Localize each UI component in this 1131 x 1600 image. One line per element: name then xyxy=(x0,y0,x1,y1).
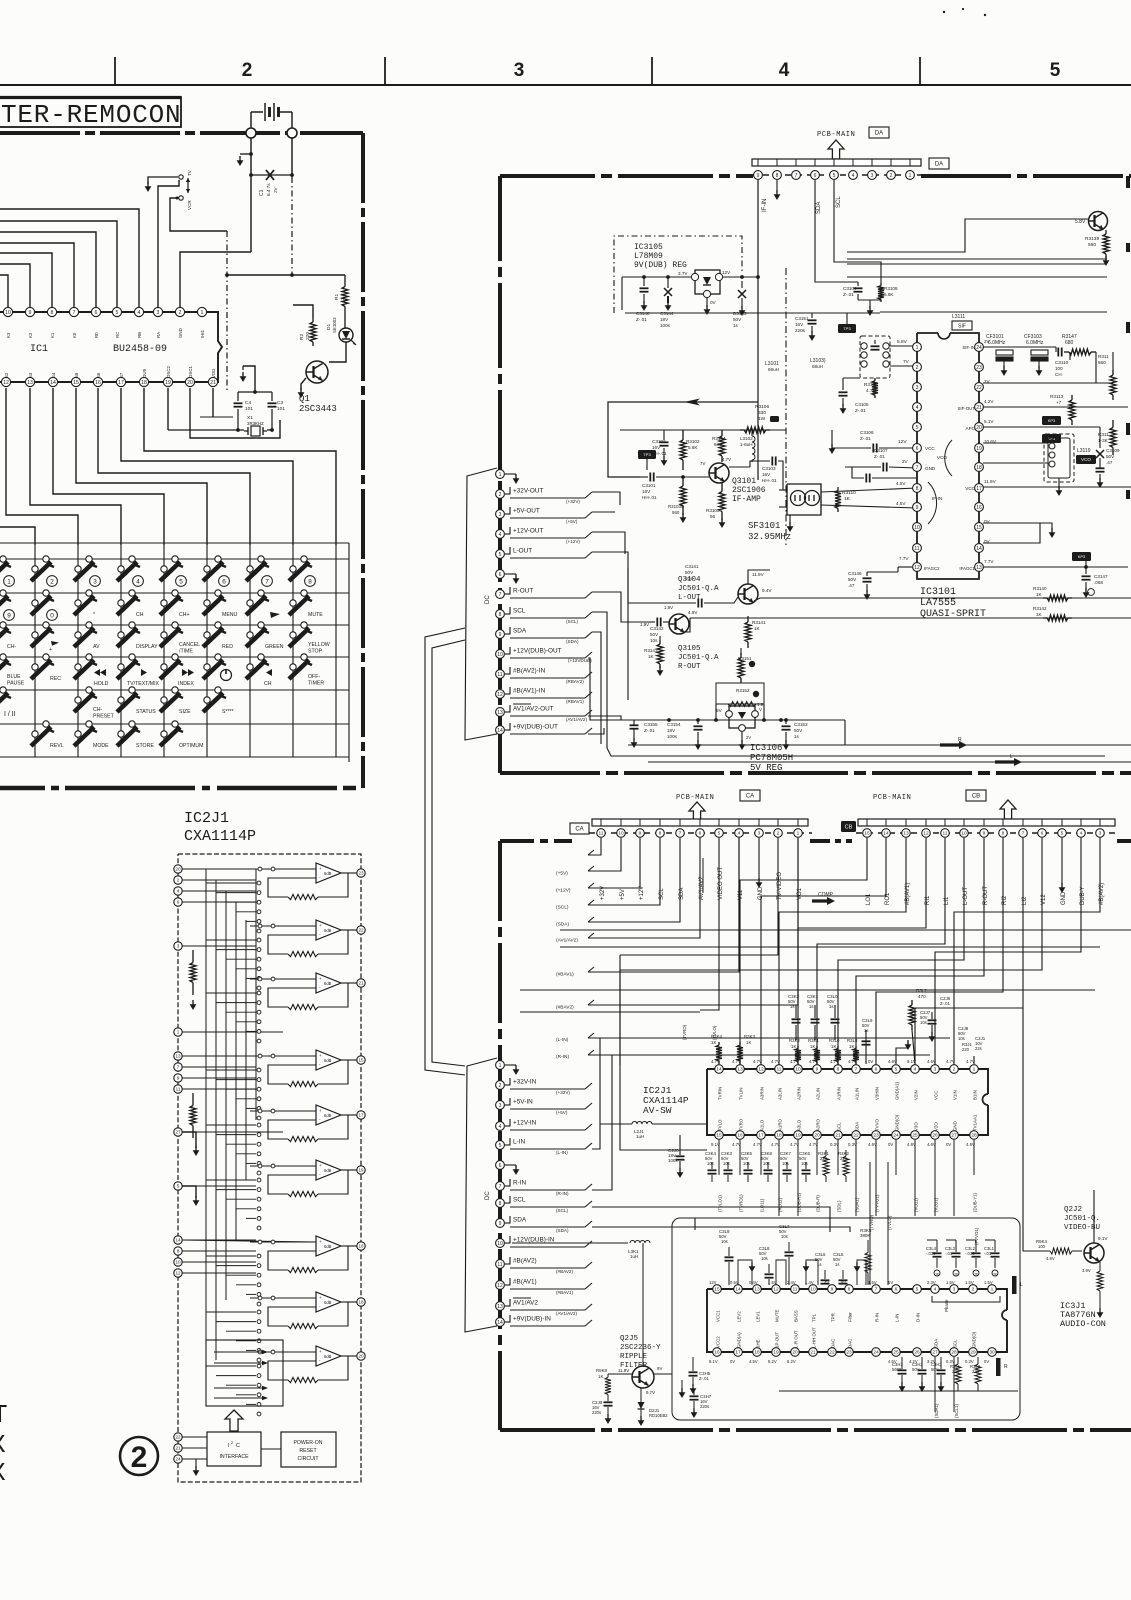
svg-text:25: 25 xyxy=(893,1350,899,1356)
svg-text:TP: TP xyxy=(993,1272,997,1276)
svg-text:4.5V: 4.5V xyxy=(749,1359,758,1364)
key switch hold at row 657 xyxy=(86,654,92,660)
svg-text:0: 0 xyxy=(50,612,54,619)
resistor R3110 1K xyxy=(837,487,839,491)
svg-text:2: 2 xyxy=(177,878,180,883)
svg-text:K1: K1 xyxy=(50,332,55,338)
svg-text:1W: 1W xyxy=(758,416,766,422)
svg-text:BU2458-09: BU2458-09 xyxy=(113,344,167,355)
svg-text:2: 2 xyxy=(890,173,893,179)
wire video buffer feed xyxy=(1023,1008,1040,1251)
svg-text:+5V-IN: +5V-IN xyxy=(513,1099,533,1106)
svg-text:#B(AV2): #B(AV2) xyxy=(513,1258,537,1265)
svg-text:9: 9 xyxy=(7,612,11,619)
wire horizontal collector below AV-SW xyxy=(695,1217,1010,1219)
svg-text:25: 25 xyxy=(912,1133,918,1139)
svg-text:560: 560 xyxy=(1098,360,1106,365)
svg-text:10s: 10s xyxy=(763,1161,770,1166)
svg-text:RA: RA xyxy=(156,332,161,338)
svg-text:7V: 7V xyxy=(700,461,705,466)
coil L3119 VCO xyxy=(983,442,1048,444)
svg-text:VIDEO-BU: VIDEO-BU xyxy=(1064,1224,1100,1232)
svg-text:10s: 10s xyxy=(782,1161,789,1166)
svg-text:2.4V: 2.4V xyxy=(787,1280,796,1285)
svg-text:I / II: I / II xyxy=(4,711,16,718)
svg-text:330: 330 xyxy=(758,410,766,416)
svg-text:8: 8 xyxy=(499,612,502,618)
svg-text:RESET: RESET xyxy=(299,1448,317,1454)
key switch c3 at row 559 xyxy=(86,556,92,562)
svg-text:12: 12 xyxy=(923,831,929,837)
connector DC IN pin 10 +12V(DUB)-IN xyxy=(496,1239,505,1248)
svg-text:(TVLO1): (TVLO1) xyxy=(718,1195,723,1212)
svg-text:27: 27 xyxy=(932,1350,938,1356)
svg-text:Z-.01: Z-.01 xyxy=(636,317,647,322)
svg-text:R-OUT: R-OUT xyxy=(513,588,533,595)
svg-text:4: 4 xyxy=(138,310,141,316)
svg-text:IF-AMP: IF-AMP xyxy=(732,495,761,504)
svg-text:+9V(DUB)-OUT: +9V(DUB)-OUT xyxy=(513,724,558,731)
wire battery right down xyxy=(291,138,293,177)
svg-text:13: 13 xyxy=(497,710,503,716)
ground pin1 area xyxy=(973,1056,975,1064)
svg-text:7: 7 xyxy=(1022,831,1025,837)
wire D1 to Q1 collector xyxy=(329,342,346,362)
connector DC OUT shell xyxy=(465,468,497,740)
svg-text:3: 3 xyxy=(1099,831,1102,837)
svg-text:1s: 1s xyxy=(864,1028,868,1033)
svg-text:19: 19 xyxy=(773,1350,779,1356)
ground CB GND pin xyxy=(1061,838,1063,885)
svg-text:3: 3 xyxy=(953,1287,956,1293)
svg-text:2: 2 xyxy=(953,1067,956,1073)
svg-text:6: 6 xyxy=(916,446,919,452)
svg-text:14: 14 xyxy=(735,1287,741,1293)
svg-text:2SC3443: 2SC3443 xyxy=(299,404,337,414)
svg-text:13: 13 xyxy=(737,1067,743,1073)
key switch BLUE PAUSE at row 657 xyxy=(0,654,6,660)
svg-text:6: 6 xyxy=(499,572,502,578)
I2C interface box xyxy=(207,1432,261,1466)
svg-text:10s: 10s xyxy=(685,576,693,581)
svg-text:L3102: L3102 xyxy=(740,436,753,441)
svg-text:6: 6 xyxy=(875,1067,878,1073)
svg-text:24: 24 xyxy=(976,345,982,351)
svg-text:24: 24 xyxy=(873,1350,879,1356)
svg-text:10s: 10s xyxy=(781,1234,788,1239)
svg-text:2: 2 xyxy=(179,310,182,316)
svg-text:14: 14 xyxy=(497,728,503,734)
svg-text:4: 4 xyxy=(738,831,741,837)
svg-text:A3LO: A3LO xyxy=(797,1119,802,1131)
connector CB pin 9 R-OUT xyxy=(980,829,989,838)
svg-text:CH: CH xyxy=(264,681,272,687)
connector DC OUT pin 13 AV1/AV2-OUT xyxy=(496,708,505,717)
svg-text:AV1/AV2: AV1/AV2 xyxy=(513,1300,538,1307)
svg-text:(RBAV1): (RBAV1) xyxy=(566,699,584,704)
svg-text:IF-IN: IF-IN xyxy=(762,199,768,212)
IC1 bottom pins 12..22 xyxy=(1,377,10,386)
resistor R1 2.2 xyxy=(344,275,346,287)
svg-text:1: 1 xyxy=(797,831,800,837)
svg-text:6dB: 6dB xyxy=(324,1354,332,1359)
svg-text:(LO11): (LO11) xyxy=(760,1198,765,1212)
overline AV1 xyxy=(513,703,531,705)
resistor R3103 560 xyxy=(682,477,684,486)
svg-text:PCB-MAIN: PCB-MAIN xyxy=(873,794,911,802)
IC3105 sub-box xyxy=(614,236,742,313)
IC2J1 output pin 19 xyxy=(357,1166,365,1174)
connector DC IN pin 6 xyxy=(496,1161,505,1170)
svg-text:11: 11 xyxy=(599,831,604,837)
svg-text:0V: 0V xyxy=(946,1142,951,1147)
key boxes APC xyxy=(1042,416,1061,425)
svg-text:(DUB-Y1): (DUB-Y1) xyxy=(973,1192,978,1212)
IC1 top pins 10..1 xyxy=(3,307,12,316)
svg-text:IC2J1: IC2J1 xyxy=(184,810,229,827)
svg-text:10s: 10s xyxy=(721,1239,728,1244)
wire base route left xyxy=(847,219,1088,252)
svg-text:21: 21 xyxy=(835,1133,841,1139)
svg-text:TP3: TP3 xyxy=(843,326,851,331)
op-amp buffer to pin 20 xyxy=(316,1346,341,1366)
svg-text:4.6V: 4.6V xyxy=(927,1059,936,1064)
wire bundle IC1 top fan to left edge xyxy=(0,209,139,308)
svg-text:10s: 10s xyxy=(920,1020,927,1025)
IC IC3J1 TA8776N body xyxy=(707,1289,1007,1310)
svg-text:4: 4 xyxy=(1080,831,1083,837)
svg-text:+32V-OUT: +32V-OUT xyxy=(513,488,543,495)
svg-text:TP: TP xyxy=(954,1272,958,1276)
svg-text:SIF-IN: SIF-IN xyxy=(962,345,975,350)
connector DC OUT pin 11 #B(AV2)-IN xyxy=(496,670,505,679)
key switch CANCEL /TIME at row 625 xyxy=(172,622,178,628)
key switch SIZE at row 690 xyxy=(172,687,178,693)
wire long right rails xyxy=(847,258,1107,260)
input contact circles buffer 23 xyxy=(258,867,262,871)
svg-text:1: 1 xyxy=(499,472,502,478)
overline AV1 IN xyxy=(513,1297,531,1299)
svg-text:50V: 50V xyxy=(685,570,694,575)
svg-text:24: 24 xyxy=(175,1457,181,1462)
svg-text:5: 5 xyxy=(177,1184,180,1189)
svg-text:INDEX: INDEX xyxy=(178,681,194,687)
svg-text:7: 7 xyxy=(265,578,269,585)
connector DC IN shell xyxy=(465,1058,497,1332)
svg-text:A1LIN: A1LIN xyxy=(855,1088,860,1100)
output stage inner box xyxy=(206,1340,283,1406)
svg-text:Q2J5: Q2J5 xyxy=(620,1335,639,1343)
svg-text:15: 15 xyxy=(73,380,79,386)
svg-text:3: 3 xyxy=(93,578,97,585)
svg-text:TV/TEXT/MIX: TV/TEXT/MIX xyxy=(127,681,160,687)
feedback resistor buffer 15 xyxy=(318,1060,348,1084)
wire bundle AV-SW bottom to audio xyxy=(718,1140,720,1175)
svg-text:(SDA): (SDA) xyxy=(556,1228,569,1233)
phase capacitors xyxy=(933,1252,942,1254)
svg-text:9: 9 xyxy=(29,310,32,316)
svg-text:VCC2: VCC2 xyxy=(716,1336,721,1348)
wire SF to IC pins 8 9 xyxy=(821,488,917,492)
svg-text:14: 14 xyxy=(976,546,982,552)
svg-text:17: 17 xyxy=(758,1133,764,1139)
svg-text:1.9V: 1.9V xyxy=(640,622,649,627)
svg-text:RD10EB2: RD10EB2 xyxy=(649,1413,668,1418)
svg-text:20: 20 xyxy=(187,380,193,386)
svg-text:GND: GND xyxy=(953,1121,958,1131)
IC3J1 bottom pins 16..30 xyxy=(713,1348,722,1357)
svg-text:Z-.01: Z-.01 xyxy=(940,1001,950,1006)
svg-text:C3155: C3155 xyxy=(644,722,658,727)
svg-text:5V: 5V xyxy=(716,708,723,714)
scan specks top right xyxy=(943,11,945,13)
svg-text:1s: 1s xyxy=(790,1004,794,1009)
svg-text:470: 470 xyxy=(918,994,926,999)
IC3101 right pins 24-13 xyxy=(975,343,984,352)
svg-text:12: 12 xyxy=(175,1271,181,1276)
svg-text:R3L2: R3L2 xyxy=(916,988,927,993)
IC IC3101 LA7555 body xyxy=(917,332,938,334)
svg-text:R3141: R3141 xyxy=(752,620,766,625)
svg-text:A1RO: A1RO xyxy=(778,1118,783,1131)
svg-text:3.9V: 3.9V xyxy=(1082,1268,1091,1273)
connector CB pin 4 DUB-Y xyxy=(1077,829,1086,838)
svg-text:9.4V: 9.4V xyxy=(762,588,772,593)
svg-text:50V: 50V xyxy=(650,632,659,637)
capacitor C3101 xyxy=(640,476,648,478)
test point TP31 xyxy=(838,324,856,333)
wire vdd row xyxy=(212,388,214,417)
svg-text:GND(O): GND(O) xyxy=(895,1114,900,1131)
svg-text:13: 13 xyxy=(175,1054,181,1059)
key switch c8 at row 559 xyxy=(301,556,307,562)
wire GND pin2 route xyxy=(180,252,251,308)
svg-text:(RO11): (RO11) xyxy=(778,1197,783,1212)
svg-text:IFAGC1: IFAGC1 xyxy=(959,566,975,571)
svg-text:R3L8: R3L8 xyxy=(847,1038,858,1043)
svg-text:10: 10 xyxy=(497,1241,503,1247)
resistor R3139 560 xyxy=(1105,230,1107,234)
svg-text:OSC2: OSC2 xyxy=(166,365,171,378)
svg-text:(+12VDUB): (+12VDUB) xyxy=(568,658,592,663)
svg-text:23: 23 xyxy=(976,365,982,371)
svg-text:50V: 50V xyxy=(794,728,803,733)
svg-text:5: 5 xyxy=(499,1143,502,1149)
svg-text:Phase: Phase xyxy=(944,1299,949,1312)
feedback resistor buffer 19 xyxy=(318,1170,348,1194)
svg-text:B1IN: B1IN xyxy=(973,1090,978,1100)
connector DC IN pin 5 L-IN xyxy=(496,1141,505,1150)
ground regulator xyxy=(706,298,708,306)
svg-text:18: 18 xyxy=(358,1300,364,1305)
svg-text:8: 8 xyxy=(51,310,54,316)
svg-text:24: 24 xyxy=(893,1133,899,1139)
svg-text:C3154: C3154 xyxy=(667,722,681,727)
wire pin21 SIF-OUT right xyxy=(983,406,1128,408)
wire SCL SDA routes right xyxy=(592,612,607,748)
svg-text:220: 220 xyxy=(305,332,311,340)
svg-text:CA: CA xyxy=(575,827,583,833)
svg-text:1K: 1K xyxy=(831,1044,836,1049)
svg-text:9: 9 xyxy=(499,632,502,638)
svg-text:2: 2 xyxy=(916,365,919,371)
wire SDA SCL long from DC-IN xyxy=(592,1207,830,1232)
svg-text:(L-IN): (L-IN) xyxy=(556,1037,569,1043)
svg-text:SCL: SCL xyxy=(953,1339,958,1348)
inductor L2J1 1uH xyxy=(600,1123,632,1125)
svg-text:5V: 5V xyxy=(888,1280,893,1285)
svg-text:A1LO: A1LO xyxy=(760,1119,765,1131)
svg-text:TER-REMOCON: TER-REMOCON xyxy=(1,100,181,130)
svg-text:11: 11 xyxy=(943,831,948,837)
key switch * at row 593 xyxy=(86,590,92,596)
svg-text:5: 5 xyxy=(116,310,119,316)
svg-text:(VO11): (VO11) xyxy=(914,1198,919,1212)
svg-text:V3HIN: V3HIN xyxy=(875,1087,880,1100)
connector DC OUT pin 12 #B(AV1)-IN xyxy=(496,690,505,699)
svg-text:DISPLAY: DISPLAY xyxy=(136,644,158,650)
thin enclosure around audio out stage xyxy=(627,568,629,700)
svg-text:L: L xyxy=(1020,1282,1023,1288)
svg-text:1: 1 xyxy=(909,173,912,179)
svg-text:+12V-OUT: +12V-OUT xyxy=(513,528,543,535)
resistor divider pin3 xyxy=(192,950,194,963)
wire I2C to reset xyxy=(261,1448,281,1450)
svg-text:21: 21 xyxy=(175,1446,181,1451)
svg-text:CA: CA xyxy=(746,794,754,800)
svg-text:20: 20 xyxy=(175,867,181,872)
connector CB pin 15 LO1 xyxy=(863,829,872,838)
wire pin13 IFAGC1 node xyxy=(983,566,1128,568)
svg-text:K3: K3 xyxy=(6,332,11,338)
battery terminal node - xyxy=(287,128,297,138)
svg-text:OU5: OU5 xyxy=(142,368,147,378)
svg-text:5: 5 xyxy=(833,173,836,179)
key switch MODE at row 724 xyxy=(86,721,92,727)
svg-text:(V2O1): (V2O1) xyxy=(934,1197,939,1212)
svg-text:0.4V: 0.4V xyxy=(749,1280,758,1285)
svg-text:10: 10 xyxy=(497,652,503,658)
inductor L3K1 xyxy=(630,1241,635,1244)
svg-text:560: 560 xyxy=(1088,242,1096,248)
main block border left xyxy=(498,841,502,1430)
title box TER-REMOCON xyxy=(0,97,181,127)
svg-text:(SCL): (SCL) xyxy=(556,905,569,911)
ruler tick 1-2 xyxy=(114,57,116,85)
svg-text:1K: 1K xyxy=(746,1040,751,1045)
svg-text:4.7V: 4.7V xyxy=(771,1059,780,1064)
svg-text:C3110: C3110 xyxy=(1055,360,1069,365)
svg-text:+: + xyxy=(319,1349,322,1354)
svg-text:SDA: SDA xyxy=(513,628,527,635)
connector CA arrow xyxy=(689,802,705,821)
svg-text:17: 17 xyxy=(976,486,982,492)
IC IC2J1 AV-SW body xyxy=(707,1069,988,1094)
svg-text:8: 8 xyxy=(916,486,919,492)
main block border top-mid segment xyxy=(810,839,852,843)
svg-text:4: 4 xyxy=(852,173,855,179)
svg-text:C3101: C3101 xyxy=(642,483,656,488)
svg-text:S5: S5 xyxy=(74,372,79,378)
svg-text:1K: 1K xyxy=(1036,592,1043,597)
svg-text:R3113: R3113 xyxy=(1050,394,1064,399)
svg-text:9V: 9V xyxy=(657,1366,662,1371)
key switch c6 at row 559 xyxy=(215,556,221,562)
svg-text:PCB-MAIN: PCB-MAIN xyxy=(676,794,714,802)
svg-text:DA: DA xyxy=(875,131,883,137)
tuner block border left xyxy=(498,176,502,773)
svg-text:4.8V: 4.8V xyxy=(1046,1256,1055,1261)
connector DA pin 7 xyxy=(792,171,801,180)
svg-text:14: 14 xyxy=(883,831,889,837)
svg-text:16V: 16V xyxy=(762,472,771,477)
svg-text:13: 13 xyxy=(754,1287,760,1293)
svg-text:1uH: 1uH xyxy=(630,1254,638,1259)
svg-text:560: 560 xyxy=(672,510,680,515)
svg-text:5.8V: 5.8V xyxy=(1075,219,1086,225)
wire L-IN rail xyxy=(588,1037,950,1039)
svg-text:CH: CH xyxy=(1055,372,1062,377)
svg-text:YELLOW: YELLOW xyxy=(308,642,330,648)
svg-text:STORE: STORE xyxy=(136,743,154,749)
svg-text:17: 17 xyxy=(735,1350,741,1356)
svg-text:AUDIO-CON: AUDIO-CON xyxy=(1060,1319,1106,1329)
resistors R3K2 R3K1 R3L0 R3L8 above xyxy=(797,1046,799,1049)
op-amp buffer to pin 15 xyxy=(316,1050,341,1070)
capacitor C1 xyxy=(251,174,292,176)
key switch RED at row 625 xyxy=(215,622,221,628)
svg-text:HH-.01: HH-.01 xyxy=(762,478,777,483)
svg-text:380K: 380K xyxy=(860,1233,870,1238)
svg-text:C3: C3 xyxy=(277,400,283,406)
svg-text:C3153: C3153 xyxy=(794,722,808,727)
svg-text:7: 7 xyxy=(679,831,682,837)
svg-text:TV1AA1: TV1AA1 xyxy=(973,1114,978,1131)
svg-text:C3109: C3109 xyxy=(1106,448,1120,453)
connector DC IN pin 11 #B(AV2) xyxy=(496,1260,505,1269)
resistor R3152 loop box xyxy=(716,683,764,704)
key switch index at row 657 xyxy=(172,654,178,660)
svg-text:22: 22 xyxy=(175,1435,181,1440)
svg-text:6: 6 xyxy=(1041,831,1044,837)
svg-text:DC: DC xyxy=(485,595,491,604)
svg-text:8: 8 xyxy=(837,1067,840,1073)
svg-text:15: 15 xyxy=(716,1133,722,1139)
svg-text:TP: TP xyxy=(974,1272,978,1276)
cap loop hooks above pins xyxy=(738,1260,752,1285)
SAW filter SF3101 xyxy=(787,484,821,515)
enclosure bottom line xyxy=(607,748,1105,756)
svg-text:12: 12 xyxy=(3,380,9,386)
svg-text:RC: RC xyxy=(115,332,120,338)
svg-text:L-R OUT: L-R OUT xyxy=(794,1330,799,1348)
connector CA pin 10 +5V xyxy=(617,829,626,838)
svg-text:5600: 5600 xyxy=(892,1367,902,1372)
svg-text:9.7V: 9.7V xyxy=(646,1390,655,1395)
svg-text:1K: 1K xyxy=(849,1044,854,1049)
svg-text:R9K8: R9K8 xyxy=(596,1368,608,1373)
svg-text:9: 9 xyxy=(983,831,986,837)
svg-text:12: 12 xyxy=(773,1287,779,1293)
svg-text:4: 4 xyxy=(914,1067,917,1073)
svg-text:30: 30 xyxy=(989,1350,995,1356)
svg-text:32.95MHz: 32.95MHz xyxy=(748,532,791,542)
svg-text:GND: GND xyxy=(178,328,183,338)
svg-text:R-IN: R-IN xyxy=(875,1313,880,1322)
svg-text:C3103: C3103 xyxy=(762,466,776,471)
svg-text:2: 2 xyxy=(499,1083,502,1089)
svg-text:S7: S7 xyxy=(119,372,124,378)
